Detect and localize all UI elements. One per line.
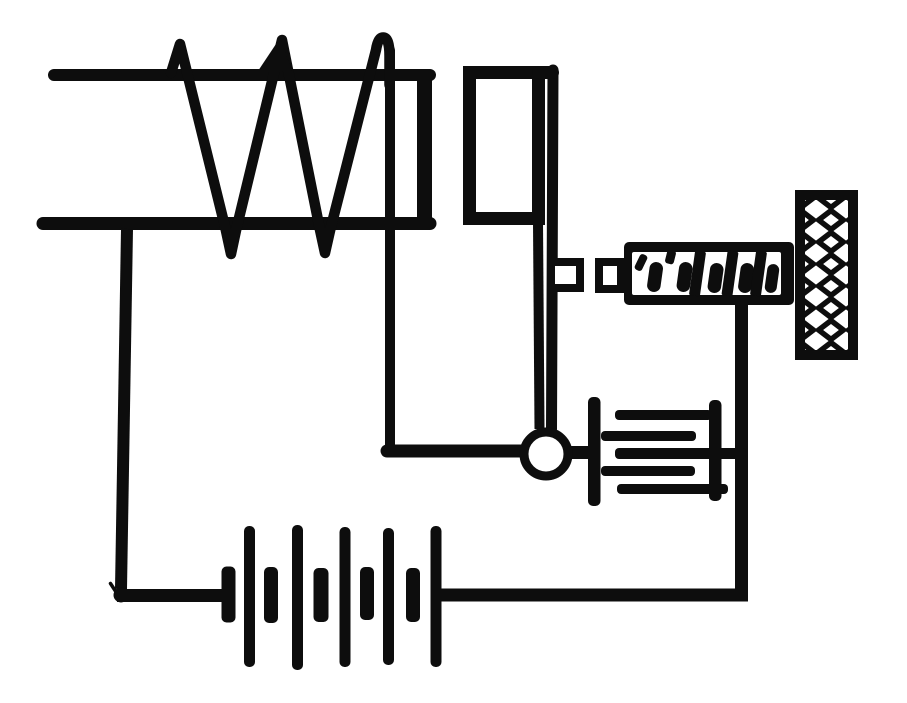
capacitor C foil 3 and wire to support (615, 448, 746, 459)
armature plate (470, 73, 539, 219)
spring wire turn 5 (764, 263, 780, 293)
knurled adjusting knob (800, 195, 853, 355)
battery cell 3 long plate (340, 527, 351, 667)
battery cell 4 long plate (383, 528, 394, 665)
adjusting screw spring housing (624, 242, 794, 305)
battery cell 4 short plate (360, 567, 374, 620)
spring top wedge (664, 249, 676, 265)
spring wire turn 4 (737, 262, 755, 294)
wire: coil bottom lead (43, 217, 430, 230)
capacitor C foil 1 (615, 410, 712, 420)
lever top corner fill (539, 66, 553, 79)
spring wire turn 1 (646, 261, 664, 293)
battery cell 1 short plate (222, 567, 236, 623)
capacitor C right plate (709, 400, 722, 501)
wire: winding end down to pivot (385, 50, 395, 452)
battery cell 2 long plate (292, 525, 303, 670)
contact screw tip (599, 262, 621, 289)
capacitor stub wire from pivot (566, 446, 592, 459)
battery cell 5 short plate (406, 568, 420, 622)
wire: corner tick (111, 584, 129, 603)
capacitor C foil 4 (601, 466, 695, 476)
coil core right end bar (417, 71, 432, 224)
pivot bearing (contact breaker pivot) (524, 432, 568, 476)
spring wire turn 2 (676, 261, 694, 293)
lever arm left edge (538, 222, 540, 429)
spring end tick (634, 253, 649, 272)
spring separator 1 (689, 250, 706, 296)
electromagnet coil winding turns (171, 37, 390, 254)
capacitor C foil 2 (601, 431, 696, 441)
spring wire turn 3 (707, 262, 725, 294)
battery cell 3 short plate (314, 568, 329, 622)
spring separator 3 (750, 250, 767, 296)
battery cell 2 short plate (264, 567, 278, 623)
wire: horizontal to pivot bearing (387, 445, 527, 458)
contact tab on lever (551, 262, 580, 288)
wire: screw support down to bottom wire (735, 303, 748, 600)
coil winding turn 2 peak (bold tip) (258, 38, 292, 71)
wire: bottom right from battery to support (436, 589, 748, 602)
wire: bottom left to battery (117, 589, 228, 602)
capacitor C left plate (588, 397, 601, 506)
capacitor C foil 5 (617, 484, 728, 494)
lever arm (vibrating contact arm) (552, 70, 554, 429)
wire: left side vertical from coil to battery (121, 229, 127, 589)
spring separator 2 (721, 250, 738, 296)
battery cell 5 long plate (431, 526, 442, 667)
battery cell 1 long plate (244, 526, 255, 667)
spring housing interior (632, 252, 781, 295)
wire: coil top lead (54, 69, 430, 81)
